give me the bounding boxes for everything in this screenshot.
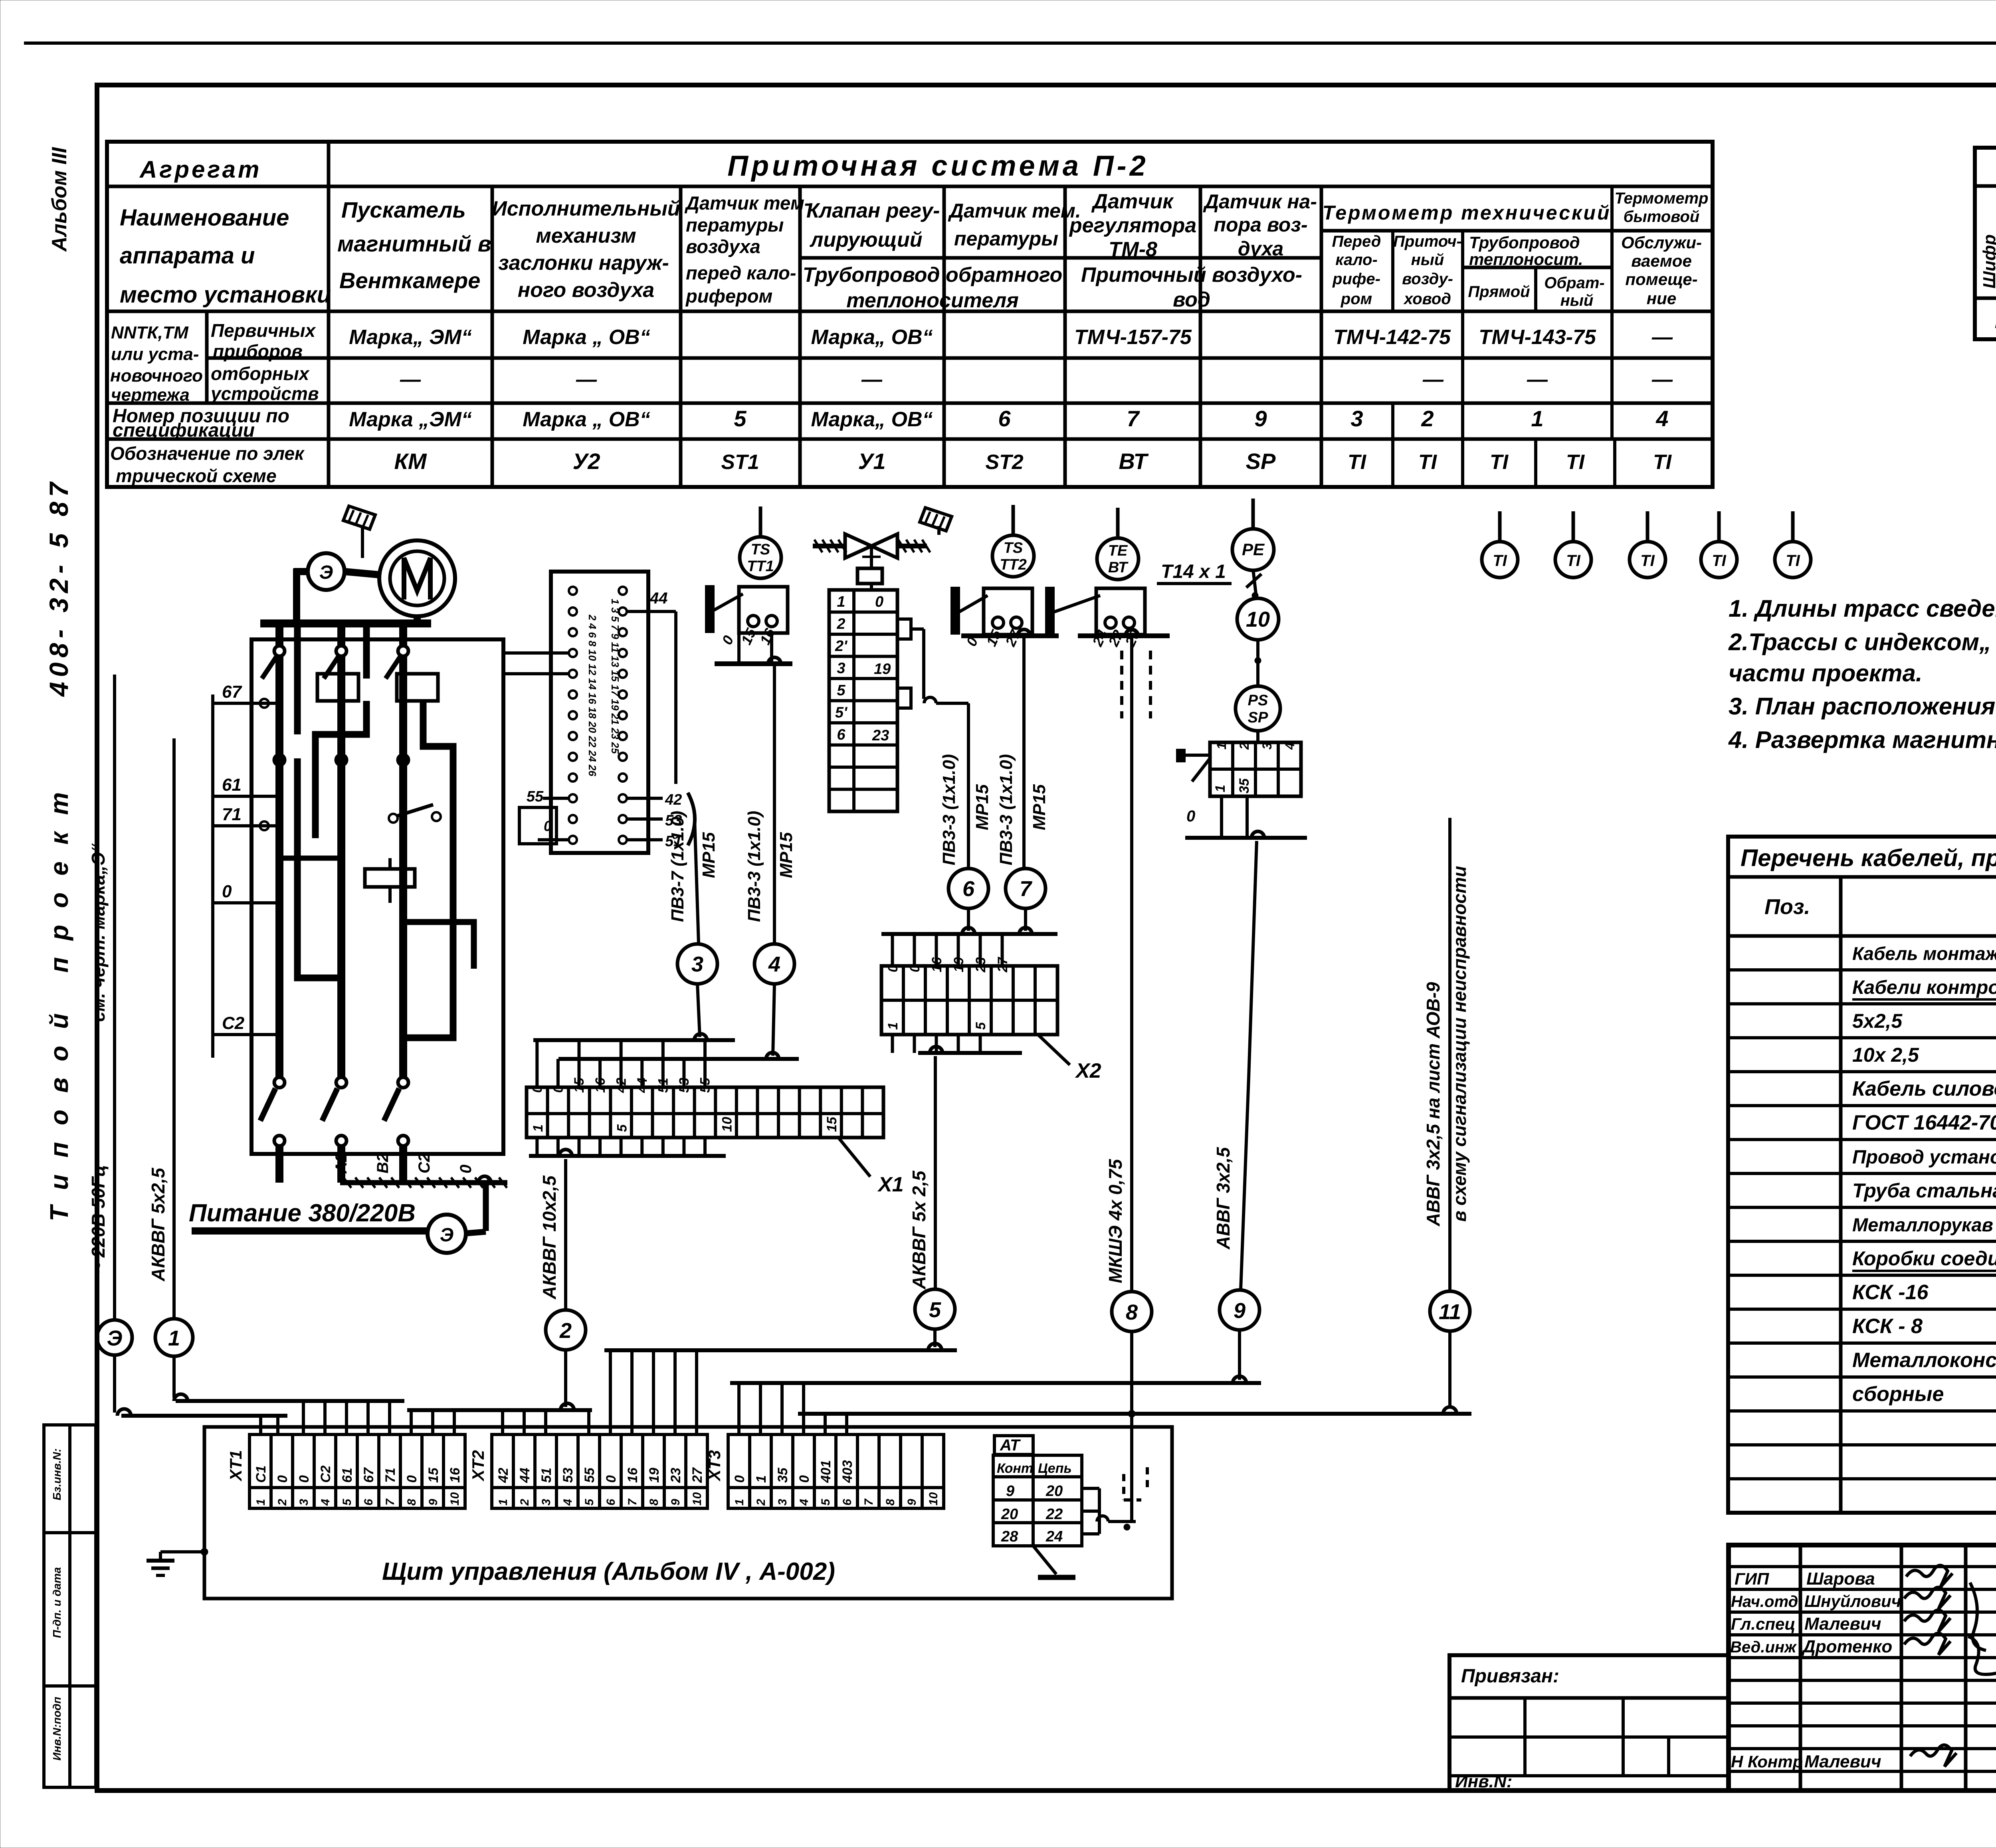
svg-text:10: 10 [1246, 607, 1270, 631]
svg-text:1: 1 [1531, 406, 1543, 431]
svg-text:4: 4 [1283, 742, 1297, 750]
svg-text:Кабель силовой АВВГ 3х 2,5: Кабель силовой АВВГ 3х 2,5 [1852, 1077, 1996, 1100]
svg-text:ПВ3-3 (1х1.0): ПВ3-3 (1х1.0) [939, 754, 959, 865]
svg-text:МР15: МР15 [776, 832, 796, 878]
svg-text:1: 1 [168, 1326, 180, 1350]
svg-text:Малевич: Малевич [1804, 1614, 1881, 1634]
svg-text:новочного: новочного [110, 366, 203, 386]
svg-text:5': 5' [835, 704, 848, 721]
svg-text:Инв.N:подп: Инв.N:подп [51, 1697, 63, 1761]
svg-text:PS: PS [1248, 692, 1268, 709]
svg-text:15: 15 [824, 1116, 840, 1132]
svg-text:—: — [1527, 368, 1548, 391]
svg-text:55: 55 [582, 1467, 597, 1483]
svg-text:403: 403 [840, 1460, 855, 1483]
svg-text:бытовой: бытовой [1624, 208, 1699, 226]
svg-text:Провод установочный ПВ3(1х1.: Провод установочный ПВ3(1х1.0) ГОСТ 6323… [1852, 1147, 1996, 1168]
svg-text:23: 23 [872, 727, 889, 744]
svg-text:Пускатель: Пускатель [341, 197, 466, 222]
svg-text:трической схеме: трической схеме [116, 465, 277, 486]
svg-text:10: 10 [448, 1492, 461, 1506]
svg-text:19: 19 [647, 1468, 662, 1483]
svg-text:место установки: место установки [120, 282, 331, 308]
svg-text:1 3 5 7 9 11 13 15 17 19 21 23: 1 3 5 7 9 11 13 15 17 19 21 23 25 [609, 599, 621, 754]
svg-text:Малевич: Малевич [1804, 1752, 1881, 1771]
svg-text:5: 5 [583, 1498, 596, 1506]
svg-text:АВВГ 3х2,5: АВВГ 3х2,5 [1213, 1147, 1234, 1250]
svg-text:4: 4 [1655, 406, 1668, 431]
svg-text:рифером: рифером [685, 285, 772, 307]
svg-text:51: 51 [539, 1468, 554, 1483]
svg-text:механизм: механизм [536, 224, 636, 247]
svg-text:ТI: ТI [1712, 552, 1726, 570]
svg-text:28: 28 [1001, 1528, 1018, 1545]
svg-text:ТМЧ-142-75: ТМЧ-142-75 [1333, 326, 1451, 349]
svg-text:ВТ: ВТ [1119, 449, 1149, 474]
svg-text:61: 61 [222, 775, 242, 795]
svg-text:9: 9 [669, 1499, 682, 1506]
svg-text:0: 0 [1186, 807, 1195, 825]
svg-text:Обозначение по элек: Обозначение по элек [110, 443, 305, 464]
svg-text:ПВ3-3 (1х1.0): ПВ3-3 (1х1.0) [745, 811, 764, 922]
svg-text:ГИП: ГИП [1735, 1569, 1769, 1588]
svg-text:5: 5 [614, 1124, 630, 1132]
svg-text:У1: У1 [858, 449, 885, 474]
svg-text:Типовой проект: Типовой проект [45, 776, 73, 1221]
svg-text:9: 9 [1254, 406, 1267, 431]
svg-text:Инв.N:: Инв.N: [1455, 1772, 1512, 1791]
svg-text:1: 1 [885, 1022, 901, 1030]
svg-text:PE: PE [1242, 540, 1265, 559]
svg-text:6: 6 [362, 1499, 375, 1506]
svg-text:3: 3 [1260, 742, 1274, 750]
svg-text:АКВВГ 10х2,5: АКВВГ 10х2,5 [539, 1175, 560, 1300]
svg-text:или уста-: или уста- [111, 344, 199, 364]
svg-text:8: 8 [405, 1499, 418, 1506]
svg-text:АВВГ 3х2,5 на лист АОВ-9: АВВГ 3х2,5 на лист АОВ-9 [1423, 982, 1444, 1227]
svg-text:Клапан регу-: Клапан регу- [806, 199, 940, 222]
svg-text:Конт: Конт [997, 1461, 1033, 1476]
svg-text:вод: вод [1173, 288, 1210, 311]
svg-text:10: 10 [691, 1492, 704, 1506]
svg-text:теплоносит.: теплоносит. [1469, 250, 1583, 269]
svg-text:—: — [1651, 368, 1673, 391]
svg-text:ПВ3-3 (1х1.0): ПВ3-3 (1х1.0) [996, 754, 1016, 865]
svg-text:возду-: возду- [1402, 270, 1453, 288]
svg-text:Исполнительный: Исполнительный [492, 197, 680, 220]
svg-text:3: 3 [776, 1499, 789, 1506]
svg-text:SP: SP [1248, 709, 1268, 726]
svg-text:7: 7 [1020, 877, 1033, 901]
svg-text:TS: TS [751, 541, 770, 558]
svg-text:ный: ный [1560, 292, 1594, 309]
svg-text:20: 20 [1046, 1483, 1063, 1500]
svg-text:—: — [576, 368, 597, 391]
svg-text:Термометр технический: Термометр технический [1323, 202, 1611, 224]
svg-text:20: 20 [1001, 1506, 1018, 1523]
svg-text:4: 4 [768, 952, 780, 976]
svg-text:2.Трассы с индексом„ Э“учтен: 2.Трассы с индексом„ Э“учтены в электрот… [1728, 629, 1996, 655]
svg-text:приборов: приборов [213, 341, 303, 362]
svg-text:Венткамере: Венткамере [339, 268, 480, 293]
svg-text:ХТ3: ХТ3 [705, 1450, 724, 1482]
svg-text:духа: духа [1238, 237, 1283, 260]
svg-text:Питание 380/220В: Питание 380/220В [189, 1199, 416, 1227]
svg-text:ние: ние [1647, 289, 1676, 308]
svg-text:ТI: ТI [1640, 552, 1655, 570]
svg-text:лирующий: лирующий [809, 228, 923, 251]
svg-text:8: 8 [884, 1499, 897, 1506]
svg-text:1: 1 [754, 1475, 769, 1483]
svg-text:7: 7 [626, 1498, 639, 1506]
svg-text:408- 32- 5 87: 408- 32- 5 87 [44, 477, 73, 697]
svg-text:ТМЧ-143-75: ТМЧ-143-75 [1479, 326, 1596, 349]
svg-text:3: 3 [691, 952, 703, 976]
svg-text:Н Контр: Н Контр [1731, 1752, 1803, 1771]
svg-text:пора воз-: пора воз- [1214, 214, 1308, 236]
svg-text:отборных: отборных [211, 363, 310, 384]
svg-text:—: — [1651, 326, 1673, 349]
svg-text:МР15: МР15 [972, 784, 992, 830]
svg-text:Привязан:: Привязан: [1461, 1666, 1559, 1687]
svg-text:0: 0 [404, 1475, 420, 1483]
svg-text:7: 7 [1127, 406, 1140, 431]
svg-text:2: 2 [1421, 406, 1434, 431]
svg-text:Датчик тем.: Датчик тем. [948, 200, 1081, 222]
svg-text:Первичных: Первичных [211, 320, 317, 341]
svg-text:7: 7 [862, 1498, 875, 1506]
svg-text:ТМЧ-157-75: ТМЧ-157-75 [1074, 326, 1192, 349]
svg-text:4: 4 [319, 1499, 332, 1506]
svg-text:Кабель монтажный МКШЭ 4 х 0,75: Кабель монтажный МКШЭ 4 х 0,75 ГОСТ10348… [1852, 943, 1996, 964]
svg-text:Агрегат: Агрегат [139, 156, 261, 183]
svg-text:Гл.спец: Гл.спец [1731, 1615, 1795, 1633]
svg-text:ного воздуха: ного воздуха [518, 279, 654, 302]
svg-text:С2: С2 [416, 1153, 433, 1173]
svg-text:магнитный в: магнитный в [337, 231, 491, 256]
svg-text:0: 0 [875, 594, 883, 610]
svg-text:23: 23 [668, 1468, 683, 1483]
svg-text:8: 8 [648, 1499, 661, 1506]
svg-text:Трубопровод: Трубопровод [1469, 233, 1580, 252]
svg-text:Вед.инж: Вед.инж [1730, 1638, 1797, 1656]
svg-text:9: 9 [1234, 1299, 1246, 1323]
svg-text:Труба стальная 14х1.8 ГОСТ: Труба стальная 14х1.8 ГОСТ 8734-75 [1852, 1179, 1996, 1202]
svg-text:3: 3 [297, 1499, 311, 1506]
svg-text:Металлорукав Р3-Ал-Х Ду=15мм О: Металлорукав Р3-Ал-Х Ду=15мм ОТУ 22.118-… [1852, 1214, 1996, 1235]
svg-text:ром: ром [1341, 290, 1372, 308]
svg-text:15: 15 [426, 1467, 441, 1483]
svg-text:АТ: АТ [1000, 1436, 1021, 1454]
svg-text:53: 53 [560, 1468, 576, 1483]
svg-text:44: 44 [517, 1468, 533, 1483]
svg-text:67: 67 [222, 682, 242, 702]
svg-text:Т14 х 1: Т14 х 1 [1161, 561, 1226, 582]
svg-text:помеще-: помеще- [1625, 270, 1697, 289]
svg-text:5: 5 [734, 406, 747, 431]
svg-text:0: 0 [457, 1165, 475, 1173]
svg-text:Шарова: Шарова [1806, 1569, 1875, 1589]
svg-text:1: 1 [1214, 742, 1229, 750]
svg-text:ный: ный [1411, 251, 1444, 269]
svg-text:6: 6 [604, 1499, 618, 1506]
svg-text:ТI: ТI [1418, 451, 1438, 474]
svg-text:ТТ1: ТТ1 [747, 558, 774, 575]
svg-text:27: 27 [690, 1467, 705, 1483]
svg-text:Цепь: Цепь [1038, 1461, 1072, 1476]
svg-text:пературы: пературы [954, 228, 1058, 250]
svg-text:71: 71 [383, 1468, 398, 1483]
svg-text:Прямой: Прямой [1468, 283, 1530, 301]
svg-text:9: 9 [1006, 1483, 1014, 1500]
svg-text:перед кало-: перед кало- [686, 262, 796, 283]
svg-text:0: 0 [544, 818, 552, 834]
svg-text:МР15: МР15 [1030, 784, 1049, 830]
svg-text:Х2: Х2 [1075, 1059, 1101, 1082]
svg-text:2 4 6 8 10 12 14 16 18 20 22 2: 2 4 6 8 10 12 14 16 18 20 22 24 26 [586, 614, 598, 776]
svg-text:9: 9 [905, 1499, 919, 1506]
svg-text:ТМ-8: ТМ-8 [1109, 238, 1157, 261]
svg-text:Датчик тем-: Датчик тем- [684, 192, 811, 214]
svg-text:воздуха: воздуха [686, 236, 760, 257]
svg-text:Нач.отд: Нач.отд [1731, 1593, 1798, 1611]
svg-text:ПВ3-7 (1х1.0): ПВ3-7 (1х1.0) [668, 811, 687, 922]
svg-text:Э: Э [107, 1326, 123, 1350]
svg-text:19: 19 [874, 661, 891, 678]
svg-text:Шнуйлович: Шнуйлович [1804, 1592, 1901, 1611]
svg-text:6: 6 [841, 1499, 854, 1506]
svg-text:Э: Э [319, 562, 333, 583]
svg-text:Марка „ЭМ“: Марка „ЭМ“ [349, 408, 472, 431]
svg-text:Марка„ ОВ“: Марка„ ОВ“ [811, 326, 933, 349]
svg-text:ВТ: ВТ [1108, 559, 1129, 576]
svg-text:22: 22 [1046, 1506, 1063, 1523]
svg-text:SP: SP [1246, 449, 1276, 474]
svg-text:Трубопровод обратного: Трубопровод обратного [803, 263, 1062, 287]
svg-text:1: 1 [497, 1499, 510, 1506]
svg-text:Датчик на-: Датчик на- [1203, 190, 1317, 213]
svg-text:регулятора: регулятора [1069, 214, 1196, 237]
svg-text:42: 42 [496, 1468, 511, 1483]
svg-text:~ 220В 50Гц: ~ 220В 50Гц [88, 1165, 109, 1273]
svg-text:МКШЭ 4х 0,75: МКШЭ 4х 0,75 [1105, 1159, 1126, 1283]
svg-text:Марка„ ЭМ“: Марка„ ЭМ“ [349, 326, 472, 349]
svg-text:3: 3 [837, 660, 845, 677]
svg-text:Обслужи-: Обслужи- [1621, 233, 1702, 252]
svg-text:КСК -16: КСК -16 [1852, 1281, 1929, 1304]
svg-text:ТI: ТI [1348, 451, 1367, 474]
svg-text:2: 2 [836, 616, 845, 633]
svg-text:7: 7 [384, 1498, 397, 1506]
svg-text:Перечень кабелей, проводов и: Перечень кабелей, проводов и монтажных и… [1741, 845, 1996, 871]
svg-text:Э: Э [440, 1225, 454, 1246]
svg-text:в схему сигнализации неиспра: в схему сигнализации неисправности [1449, 866, 1470, 1222]
svg-text:5: 5 [929, 1298, 941, 1322]
svg-text:2: 2 [754, 1499, 768, 1506]
svg-text:42: 42 [665, 791, 682, 808]
svg-text:1: 1 [1213, 785, 1228, 792]
svg-text:71: 71 [222, 805, 242, 824]
svg-text:ТI: ТI [1566, 451, 1585, 474]
svg-text:см. черт. марка„Э“: см. черт. марка„Э“ [88, 843, 109, 1022]
svg-text:Коробки соединительные ТУ36.: Коробки соединительные ТУ36.П53-75: [1852, 1247, 1996, 1270]
svg-text:заслонки наруж-: заслонки наруж- [498, 251, 669, 275]
svg-text:П-дп. и дата: П-дп. и дата [51, 1567, 63, 1638]
svg-text:8: 8 [1126, 1300, 1138, 1324]
svg-text:—: — [400, 368, 421, 391]
svg-text:44: 44 [649, 590, 668, 607]
svg-text:С2: С2 [318, 1465, 333, 1483]
svg-text:5: 5 [837, 682, 846, 699]
svg-text:61: 61 [340, 1468, 355, 1483]
svg-text:АКВВГ 5х2,5: АКВВГ 5х2,5 [148, 1167, 168, 1282]
svg-text:0: 0 [297, 1475, 312, 1483]
svg-text:ховод: ховод [1403, 290, 1451, 308]
svg-text:ST2: ST2 [985, 451, 1023, 474]
svg-text:Приточный воздухо-: Приточный воздухо- [1081, 263, 1302, 287]
svg-text:кало-: кало- [1335, 251, 1378, 269]
svg-text:А2: А2 [333, 1153, 350, 1174]
svg-text:Дротенко: Дротенко [1801, 1637, 1892, 1656]
svg-text:ваемое: ваемое [1631, 251, 1692, 270]
svg-text:МР15: МР15 [699, 832, 719, 878]
svg-text:2': 2' [835, 638, 848, 655]
svg-text:0: 0 [797, 1475, 812, 1483]
svg-text:5: 5 [973, 1022, 988, 1030]
svg-text:0: 0 [604, 1475, 619, 1483]
svg-text:4: 4 [798, 1499, 811, 1506]
svg-text:6: 6 [998, 406, 1011, 431]
svg-text:24: 24 [1046, 1528, 1063, 1545]
svg-text:4. Развертка магнитного пуск: 4. Развертка магнитного пускателя показа… [1728, 726, 1996, 753]
svg-text:ГОСТ 16442-70 *: ГОСТ 16442-70 * [1852, 1111, 1996, 1134]
svg-text:В2: В2 [374, 1153, 392, 1173]
svg-text:1. Длины трасс сведены в т: 1. Длины трасс сведены в таблицу. [1729, 595, 1996, 622]
svg-text:ТI: ТI [1490, 451, 1509, 474]
svg-text:5: 5 [819, 1498, 832, 1506]
svg-text:Кабели контрольные АКВВГ ГОС: Кабели контрольные АКВВГ ГОСТ 1508-78 *Е… [1852, 977, 1996, 998]
svg-text:спецификации: спецификации [113, 420, 255, 441]
svg-text:9: 9 [427, 1499, 440, 1506]
svg-text:35: 35 [775, 1467, 790, 1483]
svg-text:1: 1 [254, 1499, 267, 1506]
svg-text:ХТ1: ХТ1 [226, 1450, 245, 1482]
svg-text:Приточная система П-2: Приточная система П-2 [727, 150, 1148, 182]
svg-text:35: 35 [1237, 778, 1252, 793]
svg-text:2: 2 [518, 1499, 531, 1506]
svg-text:аппарата и: аппарата и [120, 243, 255, 269]
svg-text:Марка „ ОВ“: Марка „ ОВ“ [523, 408, 650, 431]
svg-text:чертежа: чертежа [111, 385, 190, 405]
svg-text:Марка„ ОВ“: Марка„ ОВ“ [811, 408, 933, 431]
svg-text:10: 10 [927, 1492, 940, 1506]
svg-text:Поз.: Поз. [1764, 895, 1810, 919]
svg-text:Марка „ ОВ“: Марка „ ОВ“ [523, 326, 650, 349]
svg-text:КСК - 8: КСК - 8 [1852, 1315, 1923, 1338]
svg-text:0: 0 [732, 1475, 747, 1483]
svg-text:3. План расположения см.: 3. План расположения см. лист АОВ-10. [1729, 693, 1996, 720]
svg-text:ХТ2: ХТ2 [469, 1450, 487, 1482]
svg-text:Металлоконструкции крепления: Металлоконструкции крепления [1852, 1349, 1996, 1372]
svg-text:ТЕ: ТЕ [1108, 542, 1128, 559]
svg-text:С1: С1 [253, 1466, 269, 1483]
svg-text:ТI: ТI [1493, 552, 1507, 570]
svg-text:Обрат-: Обрат- [1544, 274, 1604, 292]
svg-text:пературы: пературы [686, 214, 784, 235]
svg-text:TS: TS [1004, 540, 1023, 556]
svg-text:2: 2 [559, 1319, 572, 1343]
svg-text:1: 1 [837, 594, 845, 610]
svg-text:5: 5 [341, 1498, 354, 1506]
svg-text:КМ: КМ [394, 449, 427, 474]
svg-text:Щит управления (Альбом IV ,: Щит управления (Альбом IV , А-002) [382, 1558, 835, 1585]
svg-text:ТI: ТI [1653, 451, 1672, 474]
svg-text:сборные: сборные [1852, 1383, 1944, 1406]
svg-text:Альбом III: Альбом III [48, 146, 71, 252]
svg-text:6: 6 [962, 877, 975, 901]
svg-text:0: 0 [275, 1475, 290, 1483]
svg-text:67: 67 [361, 1467, 376, 1483]
svg-text:устройств: устройств [210, 383, 319, 404]
svg-text:ТТ2: ТТ2 [1000, 556, 1027, 573]
svg-text:—: — [861, 368, 883, 391]
svg-text:NNТК,ТМ: NNТК,ТМ [111, 323, 189, 342]
svg-text:Шифр: Шифр [1980, 234, 1996, 289]
svg-text:10: 10 [719, 1117, 735, 1132]
svg-text:3: 3 [540, 1499, 553, 1506]
svg-text:У2: У2 [572, 449, 600, 474]
svg-text:4: 4 [561, 1499, 574, 1506]
svg-text:2: 2 [276, 1499, 289, 1506]
svg-text:—: — [1422, 368, 1444, 391]
svg-text:0: 0 [222, 882, 232, 901]
svg-text:рифе-: рифе- [1332, 270, 1380, 288]
svg-text:1: 1 [733, 1499, 746, 1506]
svg-text:16: 16 [448, 1467, 463, 1483]
svg-text:Приточ-: Приточ- [1393, 233, 1462, 250]
svg-text:2: 2 [1237, 742, 1251, 750]
svg-text:Бз.инв.N:: Бз.инв.N: [51, 1448, 63, 1500]
svg-text:Перед: Перед [1332, 233, 1381, 250]
svg-text:5х2,5: 5х2,5 [1852, 1010, 1903, 1032]
svg-text:3: 3 [1350, 406, 1363, 431]
svg-text:Датчик: Датчик [1091, 190, 1174, 213]
svg-text:части проекта.: части проекта. [1729, 660, 1923, 687]
svg-text:АКВВГ 5х 2,5: АКВВГ 5х 2,5 [909, 1170, 929, 1290]
svg-text:1: 1 [531, 1124, 546, 1132]
svg-text:10х 2,5: 10х 2,5 [1852, 1044, 1919, 1066]
svg-text:11: 11 [1439, 1300, 1461, 1324]
svg-text:401: 401 [818, 1460, 834, 1483]
svg-text:С2: С2 [222, 1013, 245, 1033]
svg-text:ТI: ТI [1566, 552, 1580, 570]
svg-text:ST1: ST1 [721, 451, 759, 474]
svg-text:ТI: ТI [1786, 552, 1800, 570]
svg-text:55: 55 [527, 788, 544, 805]
svg-text:Термометр: Термометр [1615, 190, 1709, 207]
svg-text:Х1: Х1 [877, 1173, 904, 1196]
svg-text:Наименование: Наименование [120, 205, 289, 231]
svg-text:6: 6 [837, 726, 846, 743]
svg-text:теплоносителя: теплоносителя [846, 289, 1019, 312]
svg-text:16: 16 [625, 1467, 640, 1483]
